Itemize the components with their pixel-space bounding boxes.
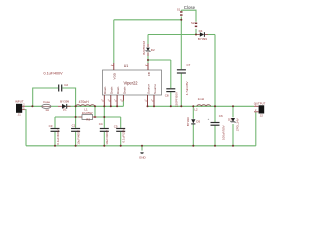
svg-text:Close: Close — [184, 5, 196, 10]
svg-text:1K/25W: 1K/25W — [82, 111, 93, 115]
svg-text:BY399: BY399 — [60, 99, 69, 103]
svg-text:Drain: Drain — [110, 86, 114, 94]
svg-text:Drain: Drain — [103, 86, 107, 94]
svg-text:Viper22: Viper22 — [124, 80, 139, 85]
svg-text:C3: C3 — [49, 124, 53, 128]
svg-text:L2: L2 — [194, 108, 198, 112]
svg-text:FB: FB — [147, 72, 151, 76]
svg-text:0.1uF/400V: 0.1uF/400V — [56, 129, 60, 145]
svg-text:D1: D1 — [63, 107, 67, 111]
svg-text:R2: R2 — [86, 118, 90, 122]
svg-text:0.1uF/400V: 0.1uF/400V — [44, 71, 64, 75]
svg-text:220PF/50V: 220PF/50V — [175, 92, 179, 107]
svg-text:Source: Source — [146, 84, 150, 94]
svg-text:Drain: Drain — [116, 86, 120, 94]
svg-text:C2: C2 — [64, 83, 68, 87]
svg-text:0.1uF/25V: 0.1uF/25V — [122, 129, 126, 143]
svg-text:BY399: BY399 — [198, 37, 207, 41]
svg-text:S1: S1 — [177, 8, 181, 12]
svg-text:C1: C1 — [72, 123, 76, 127]
svg-text:470uH: 470uH — [79, 100, 90, 104]
svg-text:D3: D3 — [228, 117, 232, 121]
svg-text:C6: C6 — [219, 114, 223, 118]
svg-text:C7: C7 — [187, 63, 191, 67]
svg-text:D2: D2 — [151, 48, 155, 52]
svg-text:Source: Source — [153, 84, 157, 94]
svg-text:1A: 1A — [45, 108, 49, 112]
svg-text:S2: S2 — [191, 21, 195, 25]
svg-text:Fuse: Fuse — [43, 100, 50, 104]
svg-text:C8: C8 — [165, 94, 169, 98]
svg-text:VDD: VDD — [113, 72, 117, 79]
svg-text:BZV55C18: BZV55C18 — [142, 40, 146, 54]
svg-text:10uF/400V: 10uF/400V — [77, 130, 81, 145]
svg-text:1mH: 1mH — [198, 97, 204, 101]
svg-text:J2: J2 — [260, 114, 264, 118]
svg-text:D5: D5 — [196, 120, 200, 124]
svg-text:10uF/400V: 10uF/400V — [105, 130, 109, 145]
svg-text:C5: C5 — [114, 124, 118, 128]
svg-text:BY399: BY399 — [186, 117, 190, 126]
svg-text:100uF/50V: 100uF/50V — [221, 125, 225, 140]
svg-text:ZPD_24V: ZPD_24V — [235, 118, 239, 131]
svg-text:J1: J1 — [18, 113, 22, 117]
svg-text:GND: GND — [139, 156, 147, 160]
svg-text:4.7uF/28V: 4.7uF/28V — [185, 81, 189, 95]
svg-text:U1: U1 — [124, 64, 129, 68]
svg-text:C4: C4 — [99, 122, 103, 126]
svg-text:Drain: Drain — [122, 86, 126, 94]
svg-text:D4: D4 — [199, 29, 203, 33]
